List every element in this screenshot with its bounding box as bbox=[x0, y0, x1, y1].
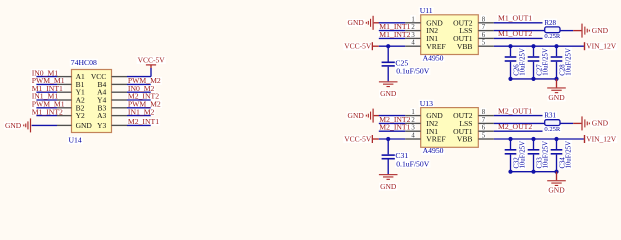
svg-text:VREF: VREF bbox=[426, 42, 445, 51]
svg-text:10uF/25V: 10uF/25V bbox=[543, 48, 550, 76]
svg-text:10uF/25V: 10uF/25V bbox=[520, 48, 527, 76]
svg-text:0.1uF/50V: 0.1uF/50V bbox=[396, 67, 430, 76]
svg-text:0.25R: 0.25R bbox=[544, 126, 561, 133]
wire U11 pin2 bbox=[379, 30, 421, 32]
svg-text:74HC08: 74HC08 bbox=[71, 58, 97, 67]
ground GND (after R28) bbox=[573, 24, 608, 38]
junction at C33 bottom bbox=[531, 170, 535, 174]
svg-text:R31: R31 bbox=[544, 112, 556, 120]
power VIN_12V (U11) bbox=[584, 42, 617, 51]
IC U11 A4950 body bbox=[421, 15, 479, 55]
svg-text:10uF/25V: 10uF/25V bbox=[520, 141, 527, 169]
svg-text:GND: GND bbox=[348, 18, 365, 27]
svg-text:A4950: A4950 bbox=[423, 146, 444, 155]
svg-text:VBB: VBB bbox=[457, 135, 473, 144]
svg-text:VREF: VREF bbox=[426, 135, 445, 144]
wire U14 pin Y2 bbox=[36, 115, 71, 117]
wire U14 pin Y1 bbox=[36, 91, 71, 93]
wire joining C26-C28 bottoms bbox=[511, 78, 557, 80]
capacitor C31 0.1uF/50V bbox=[382, 151, 430, 174]
svg-text:GND: GND bbox=[592, 26, 609, 35]
svg-text:M2_INT1: M2_INT1 bbox=[379, 123, 410, 132]
IC U14 74HC08 body bbox=[72, 70, 112, 133]
junction at VREF (U13) bbox=[386, 137, 390, 141]
svg-text:10uF/25V: 10uF/25V bbox=[566, 48, 573, 76]
capacitor C25 0.1uF/50V bbox=[382, 58, 430, 81]
ground GND (U14) bbox=[5, 118, 31, 132]
wire C34 bottom to ground bbox=[556, 172, 558, 181]
svg-text:U11: U11 bbox=[420, 6, 433, 15]
power VIN_12V (U13) bbox=[584, 134, 617, 143]
ground GND (U13 pin1) bbox=[348, 109, 380, 123]
svg-text:0.25R: 0.25R bbox=[544, 33, 561, 40]
svg-text:VBB: VBB bbox=[457, 42, 473, 51]
junction at C26 bbox=[508, 44, 512, 48]
capacitor C28 10uF/25V bbox=[551, 46, 573, 79]
svg-text:0.1uF/50V: 0.1uF/50V bbox=[396, 159, 430, 168]
wire U13 pin1 bbox=[379, 115, 421, 117]
IC U13 A4950 body bbox=[421, 108, 479, 148]
wire U13 pin5 (VBB rail) bbox=[478, 138, 584, 140]
junction at C28 bottom bbox=[554, 77, 558, 81]
ground GND (below C28) bbox=[547, 87, 566, 101]
ground GND (after R31) bbox=[573, 116, 608, 130]
capacitor C27 10uF/25V bbox=[528, 46, 550, 79]
svg-text:GND: GND bbox=[5, 121, 22, 130]
wire VREF junction down to C25 bbox=[387, 46, 389, 61]
svg-text:Y3: Y3 bbox=[97, 121, 106, 130]
svg-text:A3: A3 bbox=[97, 111, 106, 120]
wire U14 pin Y4 bbox=[112, 99, 151, 101]
capacitor C32 10uF/25V bbox=[505, 139, 527, 172]
svg-text:VCC-5V: VCC-5V bbox=[344, 134, 372, 143]
wire U11 pin4 bbox=[379, 45, 421, 47]
resistor R31 0.25R bbox=[544, 112, 561, 133]
svg-text:M1_OUT2: M1_OUT2 bbox=[498, 29, 532, 38]
wire U13 pin3 bbox=[379, 130, 421, 132]
wire U13 pin2 bbox=[379, 122, 421, 124]
svg-text:GND: GND bbox=[592, 119, 609, 128]
junction at C32 bbox=[508, 137, 512, 141]
wire U13 pin6 bbox=[478, 130, 542, 132]
ground GND (U11 pin1) bbox=[348, 16, 380, 30]
svg-text:A4950: A4950 bbox=[423, 53, 444, 62]
junction at C32 bottom bbox=[508, 170, 512, 174]
svg-text:VCC-5V: VCC-5V bbox=[138, 55, 166, 64]
wire U14 pin A4 bbox=[112, 91, 151, 93]
wire U14 GND pin bbox=[32, 124, 72, 126]
svg-text:U13: U13 bbox=[420, 99, 433, 108]
wire R31 to ground bbox=[560, 122, 573, 124]
capacitor C33 10uF/25V bbox=[528, 139, 550, 172]
svg-text:Y2: Y2 bbox=[76, 111, 85, 120]
wire U13 pin8 bbox=[478, 115, 542, 117]
text background patches bbox=[4, 7, 617, 194]
svg-text:M2_OUT2: M2_OUT2 bbox=[498, 122, 532, 131]
svg-text:VIN_12V: VIN_12V bbox=[586, 134, 617, 143]
wire U11 pin8 bbox=[478, 22, 542, 24]
resistor R28 0.25R bbox=[544, 19, 561, 40]
svg-text:R28: R28 bbox=[544, 19, 556, 27]
junction at C27 bottom bbox=[531, 77, 535, 81]
wire U14 pin A1 bbox=[36, 76, 71, 78]
junction at C26 bottom bbox=[508, 77, 512, 81]
ground GND (below C31) bbox=[379, 174, 398, 191]
power VCC-5V (U13) bbox=[344, 134, 379, 143]
svg-text:M1_OUT1: M1_OUT1 bbox=[498, 14, 532, 23]
junction at C27 bbox=[531, 44, 535, 48]
junction at C33 bbox=[531, 137, 535, 141]
junction at C34 bottom bbox=[554, 170, 558, 174]
capacitor C26 10uF/25V bbox=[505, 46, 527, 79]
svg-text:U14: U14 bbox=[69, 136, 82, 145]
svg-text:M2_OUT1: M2_OUT1 bbox=[498, 106, 532, 115]
wire U14 pin B2 bbox=[36, 107, 71, 109]
wire U14 pin B1 bbox=[36, 83, 71, 85]
svg-text:GND: GND bbox=[348, 111, 365, 120]
svg-text:GND: GND bbox=[380, 89, 397, 98]
wire U14 pin B4 bbox=[112, 83, 151, 85]
svg-text:GND: GND bbox=[548, 186, 565, 195]
wire U14 pin A3 bbox=[112, 115, 151, 117]
wire C28 bottom to ground bbox=[556, 79, 558, 88]
svg-text:10uF/25V: 10uF/25V bbox=[543, 141, 550, 169]
wire U11 pin6 bbox=[478, 37, 542, 39]
junction at C28 bbox=[554, 44, 558, 48]
svg-text:VIN_12V: VIN_12V bbox=[586, 42, 617, 51]
svg-text:VCC-5V: VCC-5V bbox=[344, 42, 372, 51]
wire U14 pin A2 bbox=[36, 99, 71, 101]
svg-text:M1_INT2: M1_INT2 bbox=[379, 30, 410, 39]
wire VCC pin to VCC-5V bbox=[112, 68, 152, 77]
ground GND (below C25) bbox=[379, 81, 398, 98]
svg-text:M2_INT1: M2_INT1 bbox=[128, 117, 159, 126]
svg-text:GND: GND bbox=[548, 93, 565, 102]
capacitor C34 10uF/25V bbox=[551, 139, 573, 172]
power VCC-5V (U11) bbox=[344, 42, 379, 51]
wire U11 pin3 bbox=[379, 37, 421, 39]
wire U14 pin Y3 bbox=[112, 124, 151, 126]
svg-text:IN1_M2: IN1_M2 bbox=[128, 107, 155, 116]
ground GND (below C34) bbox=[547, 180, 566, 194]
wire U11 pin7 bbox=[478, 30, 544, 32]
wire U14 pin B3 bbox=[112, 107, 151, 109]
power VCC-5V (U14) bbox=[138, 55, 166, 68]
wire U13 pin4 bbox=[379, 138, 421, 140]
svg-text:M1_INT2: M1_INT2 bbox=[32, 107, 63, 116]
wire U11 pin5 (VBB rail) bbox=[478, 45, 584, 47]
wire U13 pin7 bbox=[478, 122, 544, 124]
svg-text:GND: GND bbox=[76, 121, 93, 130]
junction at C34 bbox=[554, 137, 558, 141]
svg-text:GND: GND bbox=[380, 182, 397, 191]
wire joining C32-C34 bottoms bbox=[511, 171, 557, 173]
svg-text:10uF/25V: 10uF/25V bbox=[566, 141, 573, 169]
wire U11 pin1 bbox=[379, 22, 421, 24]
junction at VREF (U11) bbox=[386, 44, 390, 48]
wire VREF junction down to C31 bbox=[387, 139, 389, 154]
wire R28 to ground bbox=[560, 30, 573, 32]
